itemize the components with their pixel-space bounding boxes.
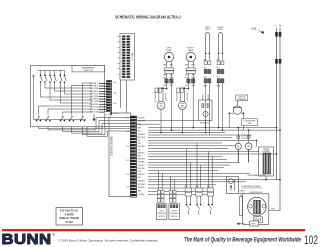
right auger motor [178, 101, 186, 109]
left auger motor vertical label [154, 91, 157, 103]
svg-text:WHI/RED: WHI/RED [138, 162, 146, 164]
harness wire run 18 [148, 181, 246, 183]
rail L [276, 28, 278, 180]
bottom row switch SW4 [69, 116, 74, 122]
svg-text:FORMER: FORMER [262, 151, 270, 153]
svg-text:®: ® [52, 232, 55, 237]
svg-text:LAMP: LAMP [166, 49, 172, 52]
right lamp label [188, 48, 195, 53]
control board J3 corner tag [104, 112, 110, 117]
svg-text:TAN/PNK: TAN/PNK [90, 103, 99, 106]
right lamp lower plug [187, 79, 195, 83]
left auger motor wire tag [166, 92, 168, 101]
svg-text:GRY: GRY [138, 143, 143, 145]
svg-text:ORN MTR: ORN MTR [166, 92, 168, 101]
toggle switch 1 [186, 196, 191, 215]
svg-text:RED: RED [163, 64, 167, 66]
wire J4 strip down to board [108, 113, 110, 115]
wire bundle membrane box to J2 strip [39, 117, 131, 136]
svg-text:RED: RED [185, 75, 189, 77]
drop wire to left dispense connector b [161, 173, 163, 190]
power bus wire 3 [148, 132, 225, 134]
start relay [227, 177, 239, 194]
harness wire run 4 [148, 142, 222, 144]
right auger motor wire tag [187, 92, 189, 101]
svg-text:ULTRA-R: ULTRA-R [90, 85, 99, 88]
compressor overload [239, 194, 242, 216]
svg-text:J3-9: J3-9 [126, 187, 130, 189]
harness wire run 22 [148, 194, 214, 196]
svg-text:WHI/GRN: WHI/GRN [138, 121, 146, 123]
svg-text:LAMP: LAMP [188, 49, 194, 52]
left lamp lower plug [165, 79, 173, 83]
svg-text:M: M [237, 145, 239, 148]
left lamp wire color labels [163, 64, 173, 66]
harness wire run 9 [148, 156, 222, 158]
right lamp wire color labels [185, 64, 195, 66]
overload protector symbol [233, 101, 241, 115]
svg-text:ORN: ORN [138, 171, 143, 173]
svg-text:WHI: WHI [170, 64, 174, 66]
bottom row switch SW2 [45, 116, 50, 122]
right lamp drop wires [183, 73, 193, 127]
bottom row switch SW5 [80, 116, 85, 122]
harness wire run 19 [148, 184, 216, 186]
J4 pin labels [113, 82, 118, 115]
harness wire run 14 [148, 170, 218, 172]
harness wire run 13 [148, 167, 224, 169]
left limit thermostat symbol [205, 33, 210, 55]
right lamp lead wires [188, 61, 193, 68]
LINE arrow [251, 27, 264, 33]
svg-text:BLK: BLK [138, 131, 142, 133]
right lamp [186, 52, 195, 61]
svg-text:YEL/BLK: YEL/BLK [138, 187, 146, 189]
membrane switch top bus wire [38, 71, 65, 75]
svg-text:MEMBRANE: MEMBRANE [82, 67, 95, 70]
BUNN logo [2, 232, 56, 247]
harness wire run 3 [148, 140, 257, 147]
harness wire run 2 [148, 137, 232, 139]
dispense valve box [199, 100, 213, 121]
left lamp label [166, 48, 172, 53]
power spec box 120V [56, 208, 83, 226]
svg-text:PNK/WHI: PNK/WHI [138, 159, 146, 161]
svg-text:GRN: GRN [271, 209, 276, 211]
node marker left edge [32, 75, 35, 78]
J1 pin number ticks [117, 36, 120, 74]
right limit thermostat symbol [218, 33, 223, 55]
condenser fan label [242, 135, 251, 140]
svg-text:BLK: BLK [185, 186, 189, 188]
svg-text:ORN/BLK: ORN/BLK [138, 134, 146, 136]
svg-text:BLK/WHI: BLK/WHI [138, 168, 145, 170]
svg-text:The Mark of Quality in Beverag: The Mark of Quality in Beverage Equipmen… [184, 237, 301, 243]
rail N [279, 28, 281, 211]
L N rail labels [275, 23, 281, 27]
footer tagline [184, 237, 301, 243]
svg-text:BLK: BLK [207, 186, 211, 188]
condenser fan tag box [242, 119, 258, 126]
harness wire run 17 [148, 179, 281, 181]
footer copyright microtext [59, 238, 159, 242]
harness wire run 6 [148, 148, 228, 150]
left dispense switch [156, 204, 167, 220]
start relay labels [239, 189, 245, 194]
valve box stubs [203, 95, 208, 128]
svg-text:SINGLE PHASE: SINGLE PHASE [59, 216, 79, 220]
svg-text:BRN: BRN [138, 156, 142, 158]
drop wires to switch 2 [197, 143, 201, 188]
drop wires to switch 1 [187, 149, 191, 188]
membrane connector pin name labels [90, 82, 100, 114]
toggle switch 2 labels [195, 186, 199, 188]
svg-text:© 2001 Bunn-O-Matic Corporatio: © 2001 Bunn-O-Matic Corporation. All rig… [59, 238, 159, 242]
left auger motor [157, 101, 165, 109]
svg-text:RED: RED [163, 75, 167, 77]
condenser fan lead ticks [237, 136, 250, 138]
left lamp connector [164, 68, 173, 73]
svg-text:BLU: BLU [217, 77, 221, 79]
svg-text:102: 102 [304, 233, 318, 247]
svg-text:BLU: BLU [204, 67, 208, 69]
svg-text:J2-9: J2-9 [126, 146, 130, 148]
transformer bottom stub [265, 176, 267, 180]
svg-text:SWITCH: SWITCH [84, 70, 93, 72]
J2 pin labels left [126, 118, 130, 189]
svg-text:ORN MTR: ORN MTR [187, 92, 189, 101]
svg-text:SHLD/GN: SHLD/GN [90, 112, 99, 114]
membrane switch label [72, 66, 105, 73]
svg-text:REFRIGERATION SYS: REFRIGERATION SYS [248, 174, 266, 177]
left auger motor drop wire [160, 109, 162, 132]
left lamp drop wires [161, 73, 171, 130]
bottom row switch SW1 [36, 116, 41, 122]
dispense switch connector right [169, 191, 176, 203]
refrigeration note text [248, 174, 266, 177]
compressor terminal block [254, 217, 263, 223]
svg-text:LINE: LINE [251, 27, 257, 30]
ground arrow inside membrane box [93, 115, 96, 122]
harness wire run 15 [148, 172, 250, 174]
harness wire run 21 [148, 190, 210, 192]
harness wire run 16 [148, 175, 227, 177]
membrane keypad switch S5 [60, 75, 63, 83]
svg-text:GRN/YEL: GRN/YEL [138, 165, 145, 167]
compressor assembly box [243, 194, 269, 225]
membrane switch enclosure box [31, 66, 105, 127]
dispense switch connector left [157, 191, 164, 203]
right limit leads and connector [217, 54, 224, 130]
drop wire to left dispense connector a [158, 171, 160, 191]
svg-text:SWITCH: SWITCH [158, 216, 165, 218]
svg-text:COMPRESSOR RELAY: COMPRESSOR RELAY [241, 185, 261, 188]
rail connector block 1 [275, 32, 281, 37]
internal routing wires [34, 78, 93, 120]
svg-text:ULTRA-L: ULTRA-L [90, 82, 99, 85]
svg-text:J4-9: J4-9 [113, 103, 117, 105]
wire J2 to fan motor box [137, 120, 199, 124]
J2 wire name labels right side [138, 118, 146, 196]
rail connector block 2 [275, 59, 281, 64]
left lamp inline splice [155, 88, 161, 92]
svg-text:CONTROL BOARD: CONTROL BOARD [111, 136, 114, 156]
svg-text:BREAKER: BREAKER [238, 98, 247, 101]
drop wires to switch 3 [209, 151, 213, 188]
harness wire run 10 [148, 158, 227, 160]
right auger motor loop [180, 87, 185, 102]
svg-text:120 VOLTS AC: 120 VOLTS AC [60, 209, 79, 213]
svg-text:L: L [275, 23, 277, 27]
svg-text:J4-5: J4-5 [113, 93, 117, 95]
left auger motor loop [159, 87, 164, 102]
svg-text:J4-13: J4-13 [113, 113, 118, 115]
left limit switch label [205, 27, 211, 31]
svg-text:LIMIT: LIMIT [205, 29, 211, 31]
left lamp lead wires [167, 61, 172, 68]
control board vertical label [111, 136, 114, 156]
svg-text:J1 CONN: J1 CONN [132, 52, 134, 61]
svg-text:RED: RED [185, 64, 189, 66]
power bus wire 1 [148, 127, 277, 129]
footer red rule [2, 229, 305, 231]
svg-text:BUNN: BUNN [2, 232, 52, 247]
membrane keypad switch S3 [49, 75, 52, 83]
J1 vertical label [132, 52, 134, 61]
harness wire run 11 [148, 161, 240, 163]
connector J1 block [120, 34, 135, 81]
control board outline [109, 113, 131, 197]
right lamp inline splice [177, 88, 183, 92]
svg-text:WHI/BLK: WHI/BLK [138, 180, 146, 182]
right lamp lower plug labels [185, 85, 195, 87]
right lamp connector [186, 68, 195, 73]
toggle switch 3 connector [207, 188, 214, 196]
svg-text:BLU: BLU [217, 67, 221, 69]
svg-text:N: N [279, 23, 281, 27]
svg-text:BLU/WHI: BLU/WHI [138, 146, 146, 148]
condenser fan motor 1 [235, 128, 241, 163]
right auger motor drop wire [181, 109, 183, 132]
harness wire run 8 [148, 153, 277, 155]
svg-text:SWITCH: SWITCH [171, 216, 178, 218]
svg-text:TAN/BLK: TAN/BLK [138, 151, 146, 154]
svg-text:BLU: BLU [204, 77, 208, 79]
harness wire run 12 [148, 164, 230, 166]
svg-text:RT AUGER: RT AUGER [175, 92, 178, 102]
svg-text:M: M [205, 114, 207, 116]
toggle switch 3 labels [207, 186, 211, 188]
connector J2 pin strip on control board [131, 116, 137, 197]
compressor motor [248, 197, 267, 216]
right dispense switch [169, 204, 180, 220]
svg-text:VIO/WHI: VIO/WHI [138, 194, 145, 196]
svg-text:BLU: BLU [138, 177, 142, 179]
svg-text:J2-5: J2-5 [126, 131, 130, 133]
harness wire run 5 [148, 145, 235, 147]
dispense valve label [200, 121, 211, 124]
toggle switch 3 [208, 196, 213, 215]
toggle switch 2 [196, 196, 201, 215]
wire J1 to control board [121, 80, 127, 113]
svg-text:LEFT AUGER: LEFT AUGER [154, 91, 157, 103]
left lamp [164, 52, 173, 61]
membrane keypad switch S4 [54, 75, 57, 83]
svg-text:YEL: YEL [138, 149, 141, 151]
svg-text:RED/WHI: RED/WHI [138, 137, 146, 139]
page number 102 [304, 233, 318, 247]
harness wire run 20 [148, 187, 212, 189]
right auger motor vertical label [175, 92, 178, 102]
svg-text:RED/BLK: RED/BLK [138, 174, 146, 176]
drop wire to right dispense connector b [173, 180, 175, 191]
condenser fan motor 2 [245, 130, 252, 162]
transformer T1 [259, 147, 274, 176]
drop wire to right dispense connector a [170, 176, 172, 190]
toggle switch 2 connector [196, 188, 203, 196]
svg-text:SCHEMATIC WIRING DIAGRAM ULTR: SCHEMATIC WIRING DIAGRAM ULTRA-2 [115, 14, 181, 19]
svg-text:GRN: GRN [251, 224, 256, 226]
compressor relay label [241, 185, 262, 188]
svg-text:TAN: TAN [138, 190, 142, 193]
svg-text:VIO: VIO [138, 140, 142, 142]
svg-text:J4-1: J4-1 [113, 82, 117, 84]
left lamp lower labels [163, 75, 173, 80]
harness wire run 1 [148, 134, 252, 136]
svg-text:2 WIRE: 2 WIRE [65, 212, 74, 216]
svg-text:J3-5: J3-5 [126, 174, 130, 176]
membrane keypad switch S6 [64, 75, 67, 83]
svg-text:WHI: WHI [191, 64, 195, 66]
power bus wire 2 [148, 129, 281, 131]
svg-text:WHI: WHI [138, 128, 142, 130]
membrane keypad switch S1 [40, 75, 43, 83]
overload side taps [228, 112, 244, 130]
compressor label [249, 192, 263, 194]
svg-text:J2-1: J2-1 [126, 118, 130, 120]
compressor ground wire [269, 209, 280, 211]
toggle switch 1 labels [185, 186, 189, 188]
svg-text:WHI: WHI [195, 186, 199, 188]
svg-text:M: M [248, 145, 250, 148]
bottom row switch SW3 [60, 116, 65, 122]
membrane keypad switch S2 [44, 75, 47, 83]
svg-text:GRY/RED: GRY/RED [138, 184, 146, 186]
svg-text:60 HZ: 60 HZ [66, 220, 74, 224]
compressor ground lug arrow [237, 221, 259, 226]
left lamp lower plug labels [163, 85, 173, 87]
right lamp lower labels [185, 75, 195, 80]
toggle switch 1 connector [185, 188, 192, 196]
circuit breaker label box [236, 95, 248, 101]
svg-text:LIMIT: LIMIT [218, 29, 224, 31]
harness wire run 7 [148, 150, 260, 152]
svg-text:J3-1: J3-1 [126, 160, 130, 162]
connector J4 pin strip [107, 80, 112, 114]
left limit leads and connector [204, 54, 211, 135]
stub wires label column to J4 strip [99, 84, 107, 113]
svg-text:BLK/RED: BLK/RED [138, 118, 146, 120]
right limit switch label [217, 27, 224, 31]
title: SCHEMATIC WIRING DIAGRAM ULTRA-2 [115, 14, 181, 19]
